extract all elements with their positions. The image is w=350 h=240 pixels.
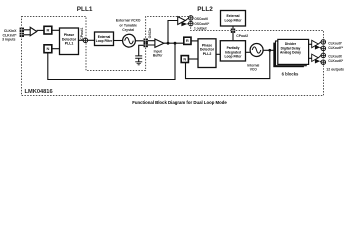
bypass capacitor xyxy=(135,56,142,58)
divider N1 xyxy=(44,45,52,53)
pin CPout2 xyxy=(231,29,235,33)
clock divider block xyxy=(278,39,309,64)
wires CLKoutY buffer to pins xyxy=(318,42,323,49)
svg-text:CLKoutX*: CLKoutX* xyxy=(328,59,344,63)
svg-text:Analog Delay: Analog Delay xyxy=(280,50,301,54)
wires CLKoutX buffer to pins xyxy=(318,55,323,62)
pin CLKinX* xyxy=(20,33,24,37)
svg-text:Loop Filter: Loop Filter xyxy=(224,18,242,22)
svg-text:R: R xyxy=(186,38,189,43)
svg-text:PLL2: PLL2 xyxy=(203,52,212,56)
svg-text:PLL2: PLL2 xyxy=(197,6,213,13)
wire OSCout buffer to pins xyxy=(185,18,190,24)
wire loop filter to VCXO xyxy=(114,40,123,42)
wire loop filter to CPout2 pin to PILF xyxy=(232,26,234,41)
svg-text:External: External xyxy=(226,14,239,18)
svg-text:External: External xyxy=(98,35,111,39)
oscillator VCXO crystal xyxy=(123,34,136,47)
svg-text:LMK04816: LMK04816 xyxy=(25,89,53,95)
svg-text:Functional Block Diagram for D: Functional Block Diagram for Dual Loop M… xyxy=(132,100,227,105)
wire junction up to OSCout buffer xyxy=(168,21,178,44)
svg-text:OSCin: OSCin xyxy=(148,28,152,39)
svg-text:OSCout0: OSCout0 xyxy=(194,17,208,21)
wire R1 to PLL1 phase detector xyxy=(52,29,60,31)
pin OSCin xyxy=(144,39,148,43)
CLKoutY buffer xyxy=(312,40,319,47)
pin CLKinX xyxy=(20,28,24,32)
feedback wire PLL1 N (OSCin to N1) xyxy=(48,43,175,79)
svg-text:External VCXO: External VCXO xyxy=(116,19,141,23)
pin OSCout0 xyxy=(189,16,194,21)
pin CLKoutX* xyxy=(321,60,326,65)
wire N1 to PLL1 phase detector xyxy=(52,48,60,50)
phase detector PLL2 xyxy=(198,39,216,68)
svg-text:R: R xyxy=(46,28,49,33)
node junction to N1 feedback xyxy=(174,42,177,45)
divider R1 xyxy=(44,26,52,34)
svg-text:or Tunable: or Tunable xyxy=(119,23,137,27)
wire divider to CLKoutY buffer xyxy=(309,43,312,45)
svg-text:1 output: 1 output xyxy=(194,26,208,30)
divider N2 xyxy=(181,56,188,63)
divider R2 xyxy=(184,37,191,44)
pin CLKoutX xyxy=(321,53,326,58)
feedback wire PLL2 N (VCO to N2) xyxy=(186,50,270,78)
svg-text:6 blocks: 6 blocks xyxy=(282,71,299,76)
wires OSCin pins to input buffer xyxy=(148,41,155,45)
svg-text:3 inputs: 3 inputs xyxy=(2,38,15,42)
OSCout buffer xyxy=(178,17,186,25)
wire VCO to clock divider xyxy=(263,49,278,51)
svg-text:N: N xyxy=(183,57,186,62)
clock divider stack middle layer xyxy=(276,41,307,66)
OSCin input buffer xyxy=(155,39,164,47)
chip outline LMK04816 (dashed boundary with notches) xyxy=(22,17,324,96)
node junction to OSCout xyxy=(167,42,170,45)
svg-text:CLKoutY*: CLKoutY* xyxy=(328,46,344,50)
internal VCO oscillator xyxy=(250,44,263,57)
svg-text:CPout2: CPout2 xyxy=(236,34,248,38)
external loop filter PLL1 xyxy=(95,32,114,46)
clock divider stack back layer xyxy=(273,43,304,68)
wire divider to CLKoutX buffer xyxy=(309,57,312,59)
external loop filter PLL2 xyxy=(221,11,246,27)
wire N2 to PLL2 phase detector xyxy=(189,58,199,60)
svg-text:CLKinX: CLKinX xyxy=(4,29,17,33)
node junction VCO feedback xyxy=(268,49,271,52)
svg-text:Internal: Internal xyxy=(247,63,259,67)
svg-text:Loop Filter: Loop Filter xyxy=(224,55,242,59)
wire VCXO to OSCin pin xyxy=(135,40,146,42)
ground xyxy=(135,62,142,65)
phase detector PLL1 xyxy=(60,28,79,55)
svg-text:Crystal: Crystal xyxy=(122,28,134,32)
svg-text:CLKoutY: CLKoutY xyxy=(328,41,343,45)
pin CLKoutY xyxy=(321,40,326,45)
svg-text:CPout1: CPout1 xyxy=(80,27,84,39)
svg-text:Buffer: Buffer xyxy=(153,54,163,58)
wire OSCin buffer to R2 xyxy=(164,42,184,44)
wire PD1 to CPout1 pin xyxy=(79,39,95,41)
CLKin input buffer xyxy=(30,27,37,35)
svg-text:VCO: VCO xyxy=(250,68,258,72)
wire CLKinX* to input buffer xyxy=(22,34,30,36)
pin OSCin* xyxy=(144,43,148,47)
wire R2 to PLL2 phase detector xyxy=(191,40,198,42)
wire OSCin* to bypass capacitor xyxy=(139,45,146,55)
svg-text:12 outputs: 12 outputs xyxy=(326,67,344,71)
CLKoutX buffer xyxy=(312,54,319,61)
wire PILF to internal VCO xyxy=(245,51,252,53)
partially integrated loop filter xyxy=(220,41,245,61)
svg-text:PLL1: PLL1 xyxy=(65,42,74,46)
wire CLKinX to input buffer xyxy=(22,29,30,31)
wire buffer to R1 xyxy=(37,29,44,31)
pin CLKoutY* xyxy=(321,46,326,51)
svg-text:N: N xyxy=(46,46,49,51)
pin CPout1 xyxy=(83,38,88,43)
svg-text:Loop Filter: Loop Filter xyxy=(96,39,113,43)
svg-text:Input: Input xyxy=(154,49,163,53)
wire PD2 to partially integrated loop filter xyxy=(216,53,222,55)
pin OSCout0* xyxy=(189,21,194,26)
svg-text:PLL1: PLL1 xyxy=(77,6,93,13)
